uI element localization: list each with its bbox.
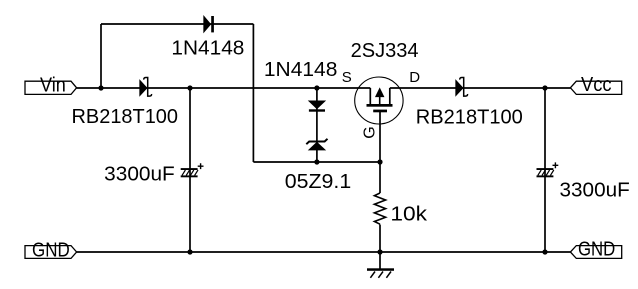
- node right cap on ground rail: [542, 249, 547, 254]
- node Vin/top-diode junction: [98, 85, 103, 90]
- svg-text:3300uF: 3300uF: [560, 179, 630, 201]
- wire top rail: [101, 23, 253, 25]
- capacitor C1 3300uF (left): [181, 163, 204, 177]
- flag GND (left): [25, 240, 77, 262]
- node right cap tap on main rail: [542, 85, 547, 90]
- wire main rail left segment: [77, 87, 371, 89]
- wire zener column: [316, 88, 318, 162]
- node junction dots: [98, 85, 547, 254]
- diode D1 1N4148 (top): [204, 16, 214, 32]
- node gate junction on mid rail: [377, 159, 382, 164]
- diode D2 RB218T100 schottky (left): [140, 78, 152, 97]
- wire gate column: [379, 112, 381, 193]
- node resistor/ground-symbol junction: [377, 249, 382, 254]
- svg-text:10k: 10k: [390, 203, 428, 225]
- node left cap tap on main rail: [187, 85, 192, 90]
- wire right capacitor column: [544, 88, 546, 252]
- node left cap on ground rail: [187, 249, 192, 254]
- wire main rail right segment: [390, 87, 571, 89]
- wire ground rail: [77, 251, 571, 253]
- mosfet Q1 2SJ334: [355, 77, 403, 124]
- svg-text:Vcc: Vcc: [581, 74, 612, 96]
- ground symbol: [367, 252, 394, 278]
- node zener bottom on mid rail: [314, 159, 319, 164]
- diode D5 RB218T100 schottky (right): [456, 78, 468, 97]
- svg-text:S: S: [342, 69, 352, 86]
- svg-text:GND: GND: [578, 238, 615, 260]
- svg-text:D: D: [409, 69, 420, 86]
- svg-text:Vin: Vin: [40, 74, 66, 96]
- wire left capacitor column: [189, 88, 191, 252]
- svg-text:2SJ334: 2SJ334: [351, 40, 419, 62]
- svg-text:1N4148: 1N4148: [171, 38, 244, 60]
- node zener tap on main rail: [314, 85, 319, 90]
- svg-text:1N4148: 1N4148: [264, 59, 338, 81]
- diode D3 1N4148 (vertical, pointing down): [309, 101, 325, 112]
- resistor R1 10k: [374, 193, 385, 224]
- wire mid rail: [253, 161, 380, 163]
- svg-text:05Z9.1: 05Z9.1: [285, 171, 351, 193]
- flag Vin: [25, 74, 77, 96]
- wire right riser top rail down to mid rail: [252, 24, 254, 162]
- zener D4 05Z9.1 (vertical, pointing up): [306, 139, 327, 150]
- svg-text:G: G: [362, 126, 379, 138]
- svg-text:GND: GND: [32, 240, 70, 262]
- capacitor C2 3300uF (right): [537, 162, 559, 177]
- svg-text:RB218T100: RB218T100: [72, 106, 179, 128]
- wire left riser Vin node to top rail: [100, 24, 102, 88]
- flag Vcc: [570, 74, 621, 96]
- flag GND (right): [570, 238, 621, 260]
- svg-text:RB218T100: RB218T100: [416, 106, 523, 128]
- svg-text:3300uF: 3300uF: [104, 163, 175, 185]
- wire resistor bottom lead: [379, 225, 381, 253]
